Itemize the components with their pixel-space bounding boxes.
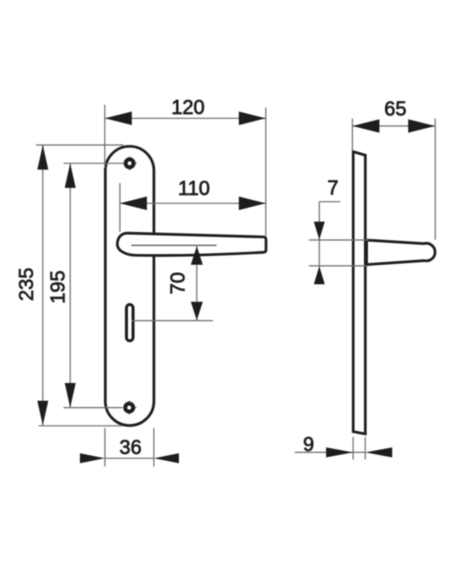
- dim 36 left arrow: [80, 453, 105, 463]
- dim 195 top extension line: [64, 162, 124, 164]
- dim 7 bottom arrow: [314, 266, 325, 284]
- top screw crosshair ticks: [129, 156, 131, 158]
- dim 70 top arrow: [191, 246, 203, 265]
- svg-text:235: 235: [16, 268, 38, 301]
- dim 120 dimension line: [105, 117, 266, 119]
- dim 7 reference line bottom: [309, 265, 369, 267]
- dim 195 top arrow: [65, 163, 76, 188]
- plate side view: [353, 152, 365, 434]
- bottom screw crosshair ticks: [128, 401, 130, 403]
- bottom screw: [125, 404, 133, 412]
- dim 9 left extension line: [352, 437, 354, 460]
- dim 36 right extension line: [153, 428, 155, 467]
- dim 195 dimension line: [69, 163, 71, 407]
- dim 9 right extension line: [364, 437, 366, 460]
- dim 65 left extension line: [351, 119, 353, 151]
- dim 9 right arrow: [365, 447, 392, 457]
- svg-text:195: 195: [48, 270, 70, 303]
- dim 110 left arrow: [120, 197, 147, 211]
- dim 7 leader shelf: [319, 201, 340, 203]
- dim 235 top extension line: [36, 144, 124, 146]
- dim 195 bottom extension line: [64, 407, 123, 409]
- svg-text:120: 120: [171, 97, 204, 119]
- svg-text:110: 110: [178, 178, 210, 200]
- handle front view: [117, 233, 266, 255]
- dim 70 dimension line: [196, 246, 198, 320]
- top screw: [126, 159, 134, 167]
- plate front view outline: [105, 146, 154, 425]
- dim 36 dimension line: [105, 457, 154, 459]
- dim 120 left extension line: [104, 105, 106, 168]
- svg-text:36: 36: [119, 437, 141, 459]
- dim 9 left arrow: [326, 447, 353, 457]
- dim 9 leader and dimension line: [295, 451, 366, 453]
- dim 36 left extension line: [104, 428, 106, 467]
- dim 235 bottom arrow: [37, 401, 48, 426]
- dim 70 bottom arrow: [191, 302, 203, 321]
- dim 120/110 right extension line: [265, 108, 267, 237]
- dim 120 right arrow: [239, 112, 266, 126]
- dim 110 dimension line: [120, 202, 266, 204]
- keyhole: [126, 305, 133, 341]
- dim 36 right arrow: [154, 453, 179, 463]
- dim 7 reference line top: [309, 239, 369, 241]
- dim 235 top arrow: [37, 145, 48, 170]
- svg-text:7: 7: [327, 177, 338, 199]
- dim 235 bottom extension line: [39, 425, 123, 427]
- svg-text:70: 70: [167, 272, 189, 294]
- svg-text:65: 65: [384, 99, 406, 121]
- handle front crease line: [131, 244, 216, 246]
- dim 7 vertical line: [318, 202, 320, 285]
- dim 120 left arrow: [105, 112, 132, 126]
- dim 65 right extension line: [434, 119, 436, 240]
- dim 235 dimension line: [42, 145, 44, 425]
- dim 65 dimension line: [352, 125, 435, 127]
- dim 110 right arrow: [239, 197, 266, 211]
- dim 7 top arrow: [314, 222, 325, 240]
- dim 65 right arrow: [408, 119, 435, 133]
- dim 195 bottom arrow: [65, 383, 76, 408]
- dim 110 left extension line: [119, 183, 121, 232]
- svg-text:9: 9: [303, 434, 314, 456]
- dim 70 keyhole reference line: [132, 320, 213, 322]
- dim 65 left arrow: [352, 119, 379, 133]
- handle side view: [367, 240, 435, 265]
